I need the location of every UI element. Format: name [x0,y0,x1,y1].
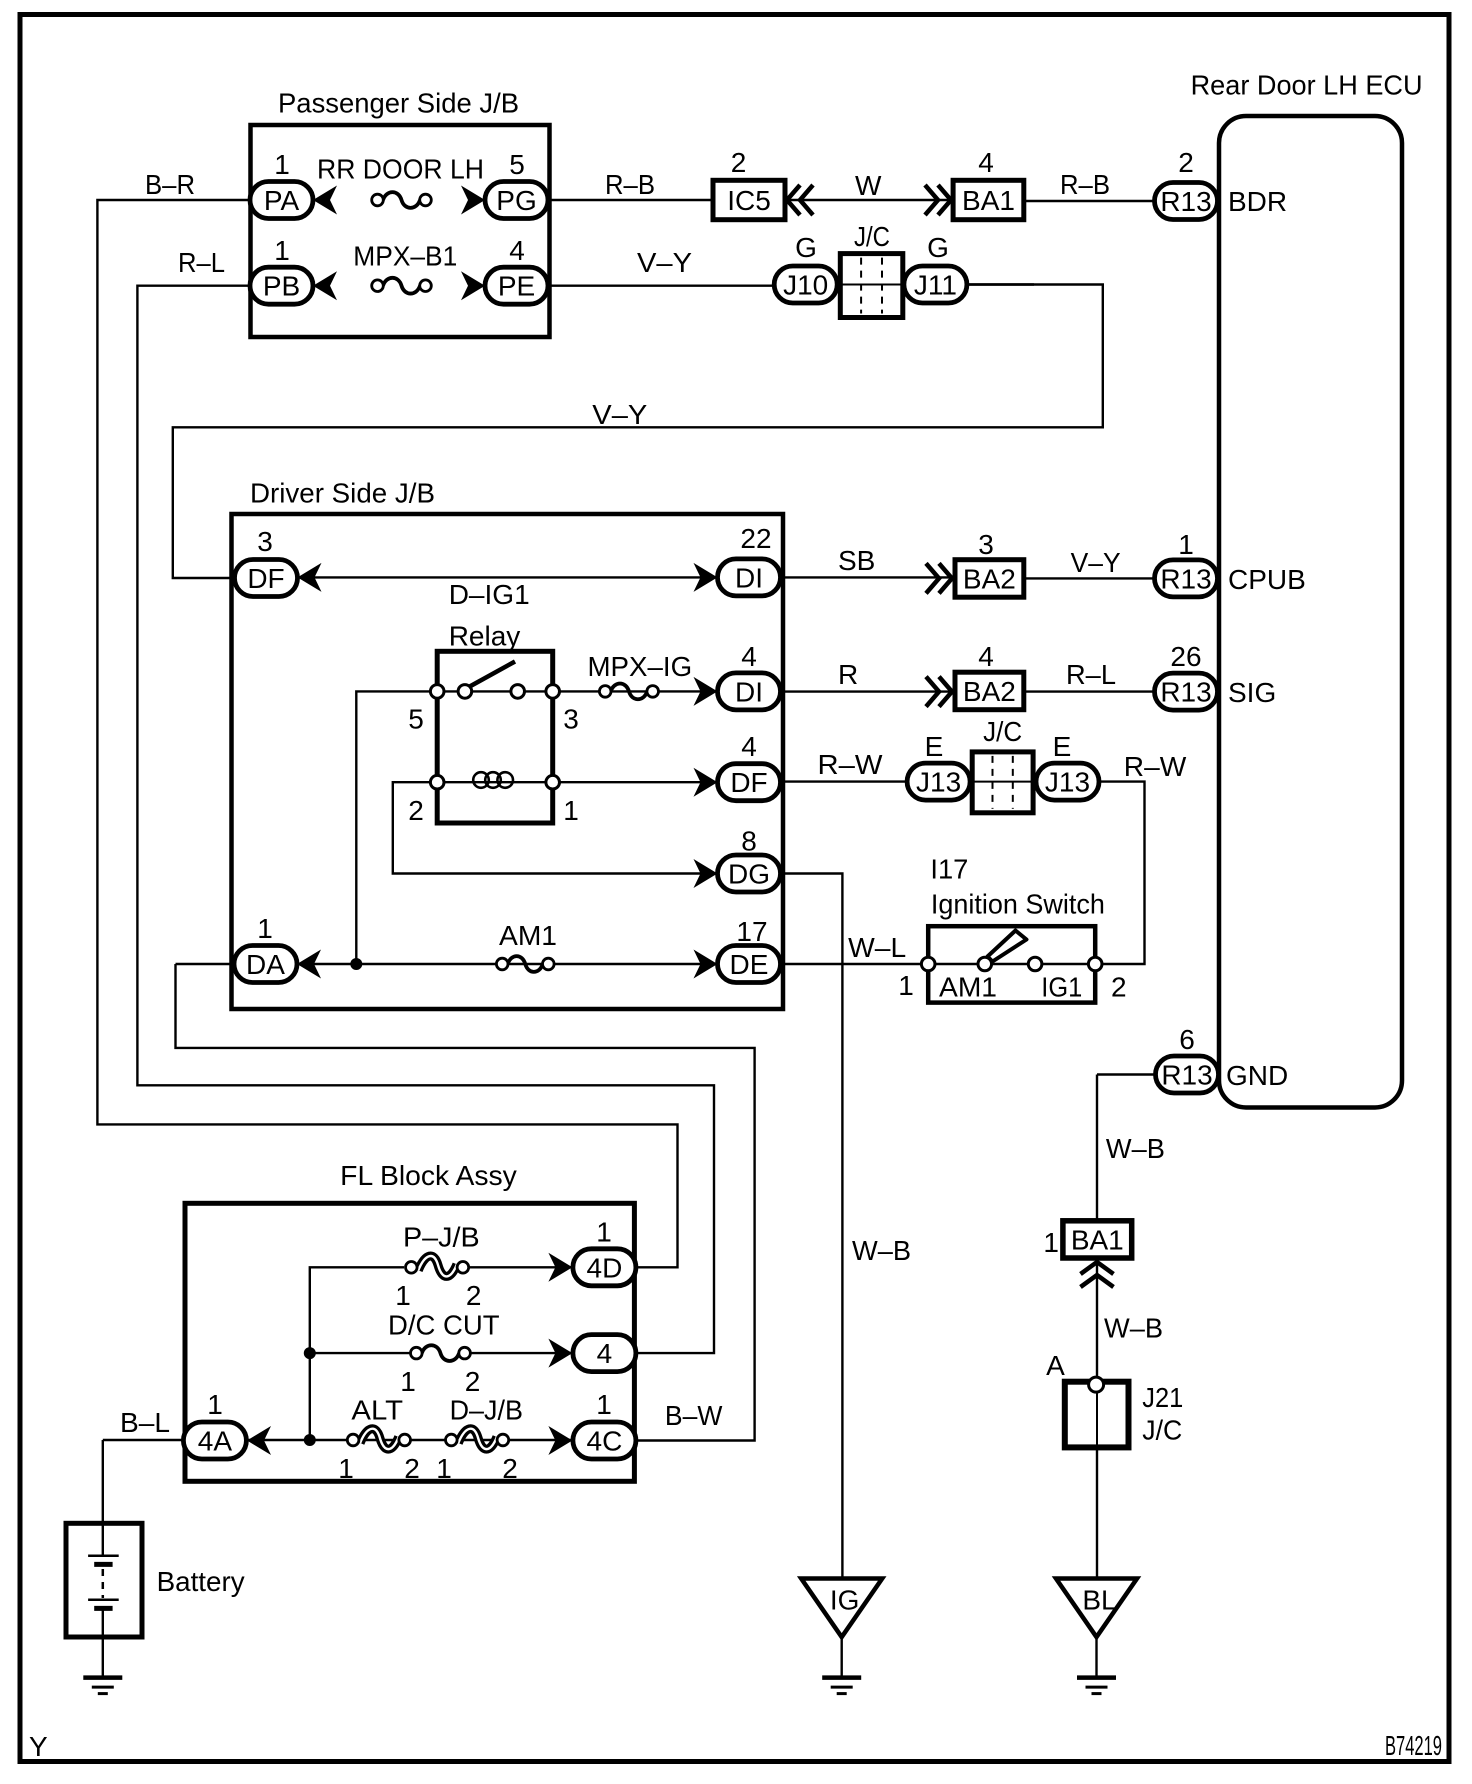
svg-text:4A: 4A [198,1426,233,1457]
connector chevrons at BA2 CPUB [926,563,952,593]
svg-text:2: 2 [502,1453,518,1484]
svg-text:1: 1 [436,1453,452,1484]
svg-text:1: 1 [898,970,914,1001]
wire R: DI to BA2 [781,690,956,692]
ground triangle IG [801,1579,882,1638]
connector J13 right [1036,763,1099,800]
svg-text:IG1: IG1 [1041,971,1082,1002]
wire V-Y: BA2 to R13 CPUB [1024,577,1155,579]
arrow into DI 22 [694,563,718,592]
arrow into PB [313,271,337,300]
svg-text:V–Y: V–Y [637,247,692,278]
svg-text:R13: R13 [1160,563,1211,594]
wire battery positive lead [102,1440,104,1556]
svg-text:1: 1 [1043,1227,1059,1258]
svg-text:J11: J11 [914,270,957,301]
svg-text:IG: IG [830,1585,860,1616]
battery box [66,1523,142,1637]
connector J11 [904,266,967,303]
svg-text:1: 1 [207,1389,223,1420]
connector BA1 pin 4 [953,180,1024,219]
svg-text:1: 1 [400,1366,416,1397]
svg-text:MPX–B1: MPX–B1 [353,241,457,272]
relay switch contact b [511,685,525,699]
svg-text:6: 6 [1179,1024,1195,1055]
svg-text:Passenger Side J/B: Passenger Side J/B [278,87,519,118]
svg-text:Relay: Relay [449,621,521,652]
svg-text:DG: DG [728,859,770,890]
connector J10 [774,266,837,303]
svg-text:B–L: B–L [120,1407,170,1438]
svg-text:1: 1 [274,149,290,180]
svg-text:J13: J13 [916,767,961,798]
relay coil [473,772,513,788]
svg-text:DF: DF [730,767,767,798]
junction block: FL Block Assy [185,1203,634,1481]
svg-text:BL: BL [1082,1585,1116,1616]
svg-text:MPX–IG: MPX–IG [588,651,693,682]
connector 4A pin 1 [183,1422,246,1459]
svg-text:B–W: B–W [665,1400,723,1431]
fusible link P-J/B [406,1256,469,1276]
svg-text:2: 2 [465,1366,481,1397]
wire J10 to J/C [836,283,841,285]
svg-text:D/C CUT: D/C CUT [388,1310,500,1341]
svg-text:V–Y: V–Y [1071,547,1121,578]
arrow into 4D [548,1253,572,1282]
pin A circle on J21 [1089,1377,1104,1392]
svg-text:R–W: R–W [1124,751,1187,782]
arrow into PA [313,186,337,215]
arrow into 4A [247,1426,271,1455]
svg-text:4: 4 [978,641,994,672]
svg-text:J21: J21 [1142,1382,1183,1413]
svg-text:J/C: J/C [854,221,890,252]
svg-text:5: 5 [509,149,525,180]
svg-text:SB: SB [838,545,875,576]
svg-text:1: 1 [274,235,290,266]
relay pin 3 [546,685,560,699]
svg-text:2: 2 [466,1280,482,1311]
svg-text:1: 1 [596,1389,612,1420]
connector PE pin 4 [485,267,548,304]
wire relay switch contact row [437,690,553,692]
wire battery negative lead [102,1610,104,1676]
svg-text:G: G [927,232,949,263]
svg-text:BDR: BDR [1228,186,1287,217]
arrow into DF [298,563,322,592]
svg-text:RR DOOR LH: RR DOOR LH [317,153,484,184]
svg-text:1: 1 [563,795,579,826]
relay pin 2 [430,775,444,789]
connector BA1 pin 1 bottom [1063,1221,1132,1258]
svg-text:BA2: BA2 [963,676,1016,707]
connector R13 pin 2 BDR [1155,183,1218,220]
svg-text:R–L: R–L [1066,659,1116,690]
connector chevrons at BA1 [925,185,951,215]
junction node on ALT row [304,1434,316,1446]
connector chevrons at BA2 SIG [926,677,952,707]
connector 4C pin 1 [573,1422,636,1459]
ignition switch blade [988,931,1027,962]
connector R13 pin 26 SIG [1155,673,1218,710]
svg-text:4: 4 [978,147,994,178]
wire V-Y: PE to J10 [548,285,774,287]
wire relay pin5 feed [356,691,437,964]
wire R-L: BA2 to R13 SIG [1024,690,1155,692]
connector PG pin 5 [485,182,548,219]
svg-text:ALT: ALT [351,1395,403,1426]
relay switch contact a [458,685,472,699]
svg-text:BA1: BA1 [1071,1224,1124,1255]
svg-text:2: 2 [404,1453,420,1484]
svg-text:E: E [1053,731,1072,762]
svg-text:E: E [925,731,944,762]
fuse MPX-IG [599,684,658,700]
svg-text:1: 1 [1178,529,1194,560]
arrow into DG [694,859,718,888]
arrow into PG [461,186,485,215]
arrow into DE [694,950,718,979]
svg-text:1: 1 [338,1453,354,1484]
svg-text:J/C: J/C [1142,1415,1182,1446]
svg-text:W: W [855,170,882,201]
svg-text:J13: J13 [1045,767,1090,798]
svg-text:R–B: R–B [1060,169,1110,200]
svg-text:B74219: B74219 [1385,1730,1442,1761]
junction block: Passenger Side J/B [251,125,550,337]
wire W-B: GND to BA1 [1096,1075,1098,1221]
ignition switch I17 box [928,926,1095,1002]
wire R-W: DF to J13 [781,780,907,782]
wire W-L: DE to ignition switch pin1 [781,963,929,965]
battery cell symbol [88,1556,119,1609]
svg-text:R–W: R–W [818,749,884,780]
wire relay pin2 to DG [393,782,718,873]
relay switch blade [467,662,515,689]
arrow into PE [461,271,485,300]
ground symbol under BL [1077,1678,1116,1694]
wire J13 through J/C [971,780,1035,782]
junction node on FL feed [304,1347,316,1359]
wire BL triangle to ground [1095,1637,1097,1676]
relay pin 5 [430,685,444,699]
fuse RR DOOR LH [372,192,432,208]
svg-text:17: 17 [736,916,767,947]
arrow into DI 4 [694,677,718,706]
wire D/C CUT to 4 [465,1352,573,1354]
svg-text:W–B: W–B [852,1235,911,1266]
wire R-W: J13 to ignition switch pin2 [1095,782,1145,964]
connector R13 pin 1 CPUB [1155,560,1218,597]
svg-text:D–IG1: D–IG1 [449,579,530,610]
svg-text:Ignition Switch: Ignition Switch [931,888,1105,919]
junction connector J/C (J13-J13) [972,752,1033,813]
wire B-L: battery to 4A [103,1439,184,1441]
wire W-B: DG to IG triangle [781,874,843,1579]
svg-text:FL Block Assy: FL Block Assy [340,1160,517,1191]
svg-text:Rear Door LH ECU: Rear Door LH ECU [1191,70,1423,101]
wire J21 to BL triangle [1096,1390,1098,1578]
svg-text:DI: DI [735,562,763,593]
wire J/C to J11 [902,283,1034,285]
connector chevrons below BA1 [1081,1262,1114,1287]
wire R-L: PB to FL 4 [137,286,714,1353]
fuse AM1 [496,956,554,972]
arrow into DA [297,950,321,979]
wire relay coil row [437,781,553,783]
ground triangle BL [1056,1579,1137,1638]
svg-text:D–J/B: D–J/B [450,1395,523,1426]
arrow into 4 [548,1339,572,1368]
connector BA2 pin 3 [955,560,1024,598]
svg-text:3: 3 [563,704,579,735]
svg-text:PA: PA [264,185,300,216]
svg-text:4C: 4C [587,1426,623,1457]
svg-text:2: 2 [731,147,747,178]
connector 4 [573,1335,636,1372]
fuse D/C CUT [411,1345,471,1361]
wire MPX-IG: relay pin3 to DI [553,690,718,692]
junction connector J/C (J10-J11) [840,254,903,318]
svg-text:DA: DA [246,949,285,980]
ignition switch pin 2 [1088,957,1102,971]
wire V-Y: J11 to DF [173,285,1103,579]
wire to D/C CUT [310,1352,417,1354]
junction node on AM1 row [350,958,362,970]
svg-text:IC5: IC5 [727,185,771,216]
svg-text:5: 5 [408,704,424,735]
connector PA pin 1 [250,182,313,219]
wire AM1 row: DA to DE [176,963,719,965]
svg-text:PE: PE [498,271,535,302]
svg-text:W–L: W–L [848,932,906,963]
svg-text:4: 4 [741,641,757,672]
wire ignition switch internal [928,963,1095,965]
svg-text:BA2: BA2 [963,564,1016,595]
svg-text:W–B: W–B [1106,1133,1165,1164]
fusible link ALT [347,1429,410,1449]
svg-text:8: 8 [741,826,757,857]
svg-text:2: 2 [1178,147,1194,178]
wire B-W: DA to FL 4C [176,964,755,1441]
junction block: Driver Side J/B [232,514,784,1009]
connector DA pin 1 [234,946,297,983]
svg-text:1: 1 [257,913,273,944]
svg-text:22: 22 [740,523,771,554]
svg-text:DI: DI [735,676,763,707]
wire relay pin1 to DF [553,781,718,783]
connector R13 pin 6 GND [1156,1056,1219,1093]
svg-text:R–B: R–B [605,169,655,200]
wire W-B: BA1 to J21 [1096,1258,1098,1378]
wire W: IC5 to BA1 [785,199,953,201]
svg-text:4D: 4D [587,1252,623,1283]
connector IC5 pin 2 [713,180,785,219]
arrow into DF 4 [694,768,718,797]
svg-text:J/C: J/C [983,716,1022,747]
svg-text:R13: R13 [1160,186,1211,217]
svg-text:P–J/B: P–J/B [403,1222,480,1253]
connector BA2 pin 4 [955,672,1024,710]
connector 4D pin 1 [573,1249,636,1286]
wire FL feed vertical [310,1267,404,1440]
connector J13 left [907,763,970,800]
svg-text:4: 4 [741,731,757,762]
svg-text:4: 4 [597,1338,613,1369]
svg-text:Driver Side J/B: Driver Side J/B [250,477,435,508]
ground symbol under battery [83,1678,122,1694]
wire P-J/B to 4D [463,1266,573,1268]
wire IG triangle to ground [841,1637,843,1676]
svg-text:1: 1 [596,1217,612,1248]
svg-text:PB: PB [263,271,300,302]
svg-text:3: 3 [257,526,273,557]
arrow into 4C [548,1426,572,1455]
svg-text:DE: DE [730,949,769,980]
svg-text:B–R: B–R [145,169,195,200]
ignition switch pin 1 [921,957,935,971]
connector DE pin 17 [718,946,781,983]
ignition switch contact IG1 [1028,957,1042,971]
wire through J21 [1096,1382,1098,1448]
wire R13 GND out [1097,1073,1156,1075]
svg-text:R13: R13 [1161,1060,1212,1091]
fuse MPX-B1 [372,278,432,294]
ECU: Rear Door LH ECU [1219,116,1402,1108]
svg-text:CPUB: CPUB [1228,564,1306,595]
svg-text:W–B: W–B [1104,1313,1163,1344]
svg-text:I17: I17 [930,854,968,885]
connector DI pin 22 [718,559,781,596]
svg-text:R13: R13 [1160,677,1211,708]
wire DF to DI internal [297,576,718,578]
connector DF pin 3 [235,560,298,597]
svg-text:26: 26 [1170,641,1201,672]
svg-text:Battery: Battery [157,1566,245,1597]
svg-text:4: 4 [509,235,525,266]
svg-text:3: 3 [978,529,994,560]
svg-text:BA1: BA1 [962,185,1015,216]
relay D-IG1 box [437,651,553,823]
svg-text:2: 2 [1111,971,1127,1002]
connector DF pin 4 [718,764,781,801]
wire R-B: PG to IC5 [548,199,713,201]
relay pin 1 [546,775,560,789]
svg-text:DF: DF [247,563,284,594]
svg-text:SIG: SIG [1228,677,1276,708]
svg-text:GND: GND [1226,1060,1288,1091]
wire ALT / D-J/B row [246,1439,573,1441]
connector PB pin 1 [250,267,313,304]
connector DG pin 8 [718,855,781,892]
svg-text:V–Y: V–Y [592,399,647,430]
svg-text:Y: Y [29,1731,48,1762]
svg-text:AM1: AM1 [499,920,557,951]
svg-text:1: 1 [395,1280,411,1311]
svg-text:2: 2 [408,795,424,826]
fusible link D-J/B [446,1429,509,1449]
junction connector J21 J/C [1065,1382,1129,1448]
svg-text:J10: J10 [783,270,828,301]
svg-text:R–L: R–L [178,247,225,278]
svg-text:PG: PG [496,185,536,216]
svg-text:G: G [795,232,817,263]
wire SB: DI to BA2 [781,576,956,578]
ignition switch contact AM1 [978,957,992,971]
wire B-R: PA to FL 4D [97,200,677,1267]
svg-text:AM1: AM1 [939,971,997,1002]
connector DI pin 4 [718,673,781,710]
wire R-B: BA1 to R13 BDR [1024,200,1155,202]
connector chevrons at IC5 [787,185,813,215]
svg-text:A: A [1046,1350,1065,1381]
ground symbol under IG [822,1678,861,1694]
svg-text:R: R [838,659,858,690]
